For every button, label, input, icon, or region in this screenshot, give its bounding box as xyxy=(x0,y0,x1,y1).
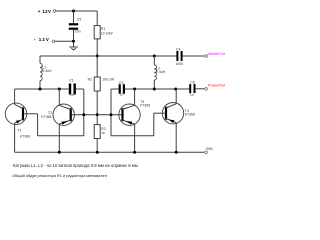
wire T4 base cross link xyxy=(111,135,154,137)
wire to ground xyxy=(73,41,75,47)
wire L2 top xyxy=(153,56,155,65)
resistor R2 xyxy=(94,77,100,91)
transistor T4 xyxy=(162,103,183,124)
junction base/C1 branch xyxy=(82,113,85,116)
wire down to R1 xyxy=(96,11,98,26)
terminal +12V xyxy=(53,10,56,13)
svg-text:C1: C1 xyxy=(69,79,74,83)
wire C5 upper lead xyxy=(73,11,75,23)
transistor T2 xyxy=(53,104,74,125)
wire top rail xyxy=(40,55,176,57)
junction T3 collector xyxy=(133,88,136,91)
junction L1 bottom xyxy=(39,88,42,91)
inductor L1 xyxy=(40,63,42,80)
wire +12V rail xyxy=(56,10,97,12)
wire C3 left lead xyxy=(111,88,119,90)
svg-text:1n: 1n xyxy=(70,93,74,97)
wire C3/T4 base column xyxy=(110,89,112,136)
transistor T1 xyxy=(5,103,26,124)
svg-text:Катушки L1, L2 - по 10 витков: Катушки L1, L2 - по 10 витков провода 0.… xyxy=(13,163,138,168)
capacitor C6 xyxy=(189,84,191,93)
wire T1 emitter xyxy=(14,123,16,152)
wire T3 emitter xyxy=(134,124,136,152)
wire C4 to antenna terminal xyxy=(183,55,205,57)
wire T4 collector xyxy=(175,89,177,104)
svg-text:C6: C6 xyxy=(190,80,195,84)
wire R3 to ground rail xyxy=(96,139,98,153)
junction base/C3 branch xyxy=(110,113,113,116)
wire C1 right lead xyxy=(76,88,84,90)
svg-text:100 2W: 100 2W xyxy=(102,77,114,81)
svg-text:10 10W: 10 10W xyxy=(101,31,113,35)
terminal antenna out xyxy=(205,55,208,58)
wire C1 to base node xyxy=(83,89,85,136)
wire T4 base down xyxy=(153,113,155,136)
svg-text:KT368: KT368 xyxy=(140,104,150,108)
svg-text:T1: T1 xyxy=(17,129,21,133)
junction L2 top xyxy=(153,55,156,58)
svg-text:C5: C5 xyxy=(77,17,82,21)
svg-text:1k: 1k xyxy=(101,131,105,135)
resistor R3 xyxy=(94,125,100,139)
junction T4 emitter xyxy=(175,151,178,154)
terminal power out xyxy=(205,88,208,91)
ground xyxy=(69,47,78,50)
svg-text:KT368: KT368 xyxy=(41,115,51,119)
junction T2 collector xyxy=(58,88,61,91)
wire T2 emitter xyxy=(58,124,60,152)
svg-text:- 12V: - 12V xyxy=(34,37,50,42)
wire T1 base down xyxy=(37,114,39,136)
wire R1 to mid rail xyxy=(96,39,98,56)
terminal -12V xyxy=(52,40,55,43)
wire L1 top xyxy=(39,56,41,63)
wire ground rail xyxy=(15,151,205,153)
wire T1 base lead xyxy=(24,113,37,115)
capacitor C4 xyxy=(176,51,178,61)
svg-text:1000: 1000 xyxy=(175,62,183,66)
svg-text:1n: 1n xyxy=(119,92,123,96)
wire rail to R2 xyxy=(96,56,98,77)
junction T3 emitter xyxy=(133,151,136,154)
wire C6 to power terminal xyxy=(196,88,205,90)
svg-text:PowerOut: PowerOut xyxy=(208,83,226,88)
wire T1 collector xyxy=(14,89,16,104)
wire base line T2-T3 xyxy=(71,114,123,116)
junction R1/rail xyxy=(96,55,99,58)
junction -12V/ground xyxy=(72,40,75,43)
junction T4 collector xyxy=(174,88,177,91)
wire T1 base cross link xyxy=(38,135,84,137)
svg-text:MiddleOut: MiddleOut xyxy=(208,52,225,56)
wire C5 lower lead xyxy=(73,30,75,42)
capacitor C3 xyxy=(119,84,121,94)
wire L2 bottom xyxy=(153,80,155,89)
junction base/R2-R3 xyxy=(96,113,99,116)
capacitor C1 xyxy=(69,84,71,95)
resistor R1 xyxy=(94,26,100,39)
wire collector rail right xyxy=(125,88,189,90)
wire -12V xyxy=(55,40,74,42)
svg-text:KT368: KT368 xyxy=(20,134,30,138)
wire T4 emitter xyxy=(175,123,177,153)
svg-text:R2: R2 xyxy=(88,77,92,81)
transistor T3 xyxy=(119,104,140,125)
svg-text:Общий обдув резистора R1 и рад: Общий обдув резистора R1 и радиатора мин… xyxy=(12,173,107,178)
junction L2 bottom xyxy=(153,88,156,91)
wire T2 collector xyxy=(58,89,60,105)
inductor L2 xyxy=(154,65,156,80)
svg-text:KT368: KT368 xyxy=(185,113,195,117)
svg-text:10n: 10n xyxy=(75,29,81,33)
wire collector rail left xyxy=(15,88,69,90)
wire R2 to base line xyxy=(96,91,98,115)
svg-text:GND: GND xyxy=(206,147,214,151)
svg-text:+ 12V: + 12V xyxy=(38,9,52,14)
wire L1 bottom xyxy=(39,81,41,89)
capacitor C5 xyxy=(69,23,78,25)
wire T3 collector xyxy=(134,89,136,105)
wire T4 base lead xyxy=(154,112,166,114)
svg-text:1n: 1n xyxy=(190,93,194,97)
terminal GND xyxy=(205,151,208,154)
wire base line to R3 xyxy=(96,115,98,125)
junction R3 bottom xyxy=(96,151,99,154)
svg-text:0.4uH: 0.4uH xyxy=(42,69,52,73)
svg-text:0.4uH: 0.4uH xyxy=(156,70,166,74)
junction T2 emitter xyxy=(58,151,61,154)
junction C5 top xyxy=(72,10,75,13)
